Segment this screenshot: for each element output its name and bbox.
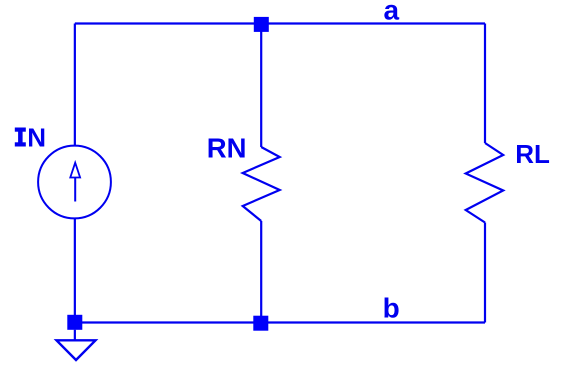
svg-text:N: N xyxy=(27,123,46,153)
svg-text:b: b xyxy=(383,293,400,324)
svg-text:a: a xyxy=(384,0,400,25)
svg-text:RL: RL xyxy=(515,139,550,169)
svg-text:RN: RN xyxy=(207,133,247,164)
